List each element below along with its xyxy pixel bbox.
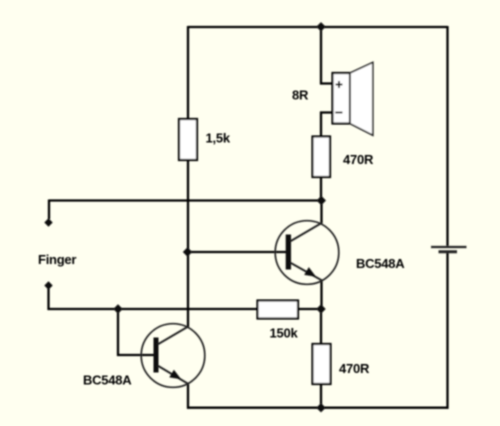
wire left rail middle [187,159,189,328]
speaker LS1 body [333,73,351,124]
speaker plus terminal mark [336,81,343,88]
svg-text:470R: 470R [343,152,374,167]
wire Q2 base [188,251,287,253]
wire speaker to R2 [320,112,322,138]
wire finger top drop [48,200,50,220]
node junction Q1 base branch [113,304,122,313]
svg-text:470R: 470R [339,361,370,376]
svg-text:8R: 8R [292,88,309,103]
speaker LS1 cone [350,62,373,135]
node junction C emitter [316,304,325,313]
wire right rail upper [446,26,448,246]
wire Q1 base branch horizontal [117,354,154,356]
transistor Q1 emitter line [158,366,188,384]
wire right rail lower [446,253,448,409]
node junction B collector [317,196,326,205]
node junction bottom rail [316,403,325,412]
svg-text:150k: 150k [270,326,299,341]
wire left rail upper [187,26,189,120]
wire finger bottom horizontal [48,308,259,310]
node junction top speaker [316,22,325,31]
transistor Q2 emitter line [290,263,322,281]
svg-text:BC548A: BC548A [356,256,405,271]
wire left rail lower [187,384,189,409]
wire Q1 base branch vertical [117,309,119,356]
wire node C to R4 [320,309,322,346]
wire Q2 collector drop [320,201,322,224]
resistor R3 150k [258,301,299,319]
wire top rail [188,26,448,28]
transistor Q2 base bar [286,235,291,270]
svg-text:1,5k: 1,5k [206,131,231,146]
transistor Q1 emitter arrow [169,370,181,380]
svg-text:Finger: Finger [38,252,76,267]
wire R4 to bottom rail [320,383,322,408]
transistor Q1 collector line [158,327,188,345]
wire speaker plus stub [320,82,333,84]
node terminal finger bottom [44,281,52,289]
wire R3 to node C [298,308,322,310]
transistor Q1 base bar [154,338,159,373]
wire Q2 emitter drop [320,280,322,310]
resistor R4 470R (bottom) [313,344,331,384]
wire speaker minus stub [320,111,333,113]
speaker minus terminal mark [335,112,342,114]
wire speaker feed [320,27,322,85]
svg-text:BC548A: BC548A [83,373,132,388]
transistor Q2 emitter arrow [304,267,316,277]
node terminal finger top [44,218,52,226]
battery B1 negative plate [439,250,458,253]
resistor R2 470R (top) [313,137,331,178]
wire R2 to node B [320,176,322,201]
wire bottom rail [187,407,449,409]
resistor R1 1,5k [179,119,197,160]
transistor Q2 collector line [290,223,322,242]
transistor Q2 circle [275,221,339,285]
node junction Q2 base rail [183,247,192,256]
battery B1 positive plate [431,246,467,248]
transistor Q1 circle [141,324,205,388]
wire finger bottom drop [47,289,49,311]
wire finger top horizontal [49,199,321,201]
